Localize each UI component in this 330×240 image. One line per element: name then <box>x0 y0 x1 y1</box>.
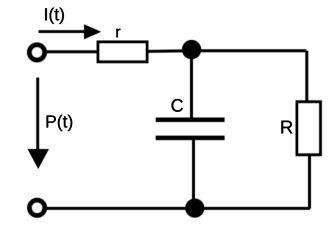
wire right branch upper segment <box>305 51 308 101</box>
terminal node bottom-left <box>29 200 44 215</box>
wire middle branch lower segment <box>192 140 195 209</box>
wire terminal to resistor r <box>46 50 97 53</box>
current arrow I(t) <box>39 24 102 39</box>
wire resistor r to top junction <box>148 49 192 53</box>
capacitor C <box>156 120 225 138</box>
wire right branch lower segment <box>308 156 311 209</box>
wire bottom rail <box>47 207 311 210</box>
wire top junction to top-right corner <box>192 49 306 52</box>
junction node top <box>182 40 201 59</box>
voltage arrow P(t) <box>28 78 50 170</box>
label I(t) <box>45 8 64 24</box>
label r <box>116 29 120 38</box>
wire middle branch upper segment <box>190 51 193 120</box>
label C <box>172 99 183 112</box>
junction node bottom <box>185 199 204 218</box>
terminal node top-left <box>29 45 44 60</box>
resistor r <box>98 42 147 62</box>
resistor R <box>297 102 320 155</box>
label P(t) <box>47 115 73 131</box>
label R <box>281 121 292 134</box>
